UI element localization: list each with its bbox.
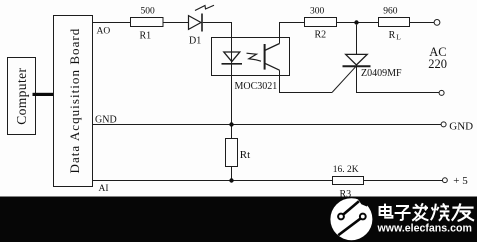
svg-text:+ 5: + 5 (453, 175, 468, 187)
AC terminal top (434, 20, 440, 26)
resistor R2 (305, 7, 337, 41)
computer box (8, 58, 36, 135)
LED inside MOC3021 (222, 52, 243, 64)
svg-text:Computer: Computer (14, 68, 29, 125)
svg-text:220: 220 (428, 57, 447, 71)
svg-text:GND: GND (95, 115, 117, 126)
resistor RL (379, 6, 410, 41)
AC terminal bottom (439, 90, 444, 95)
data acquisition board box (54, 16, 93, 187)
bus connector bar (33, 93, 55, 96)
light arrows (247, 53, 262, 61)
svg-text:Data Acquisition Board: Data Acquisition Board (67, 28, 82, 174)
logo text dian (380, 204, 393, 218)
logo text fa (412, 203, 428, 221)
junction on GND wire (229, 122, 233, 126)
svg-text:www.elecfans.com: www.elecfans.com (377, 222, 472, 234)
wire phototriac top to R2 (280, 23, 305, 44)
triac Z0409MF (332, 25, 402, 93)
svg-text:MOC3021: MOC3021 (235, 81, 278, 92)
svg-text:D1: D1 (189, 36, 201, 47)
wire LED cathode down (231, 64, 233, 139)
svg-text:R2: R2 (315, 30, 327, 41)
wire AO to R1 (93, 22, 131, 24)
AC 220 label (428, 45, 447, 71)
svg-text:R1: R1 (140, 31, 152, 42)
logo text zi (395, 206, 411, 220)
wire triac to AC bottom terminal (357, 92, 440, 94)
resistor Rt (226, 139, 251, 167)
svg-text:500: 500 (141, 7, 156, 17)
AI wire left (93, 180, 333, 182)
logo circle (330, 197, 372, 241)
svg-text:R: R (389, 30, 396, 41)
diode D1 (189, 5, 215, 46)
junction on AI wire (229, 178, 233, 182)
svg-text:960: 960 (383, 6, 398, 16)
svg-text:L: L (396, 33, 401, 42)
junction node (354, 20, 358, 24)
svg-text:GND: GND (449, 121, 473, 133)
wire phototriac bottom to gate (280, 70, 333, 92)
wire Rt to AI (231, 167, 233, 181)
GND wire (93, 124, 442, 126)
svg-text:Z0409MF: Z0409MF (361, 68, 402, 79)
resistor R1 (131, 7, 164, 42)
+5 terminal (443, 178, 448, 183)
svg-text:300: 300 (310, 7, 325, 17)
resistor R3 (333, 165, 364, 200)
wire D1 to LED branch (203, 23, 232, 53)
AI wire right (364, 180, 443, 182)
logo text shao (431, 203, 450, 220)
optocoupler U1 MOC3021 box (212, 38, 290, 92)
logo bar (decorative footer) (0, 197, 477, 242)
svg-text:AO: AO (97, 26, 111, 36)
svg-text:AI: AI (99, 184, 109, 194)
svg-text:Rt: Rt (240, 149, 250, 161)
svg-text:16. 2K: 16. 2K (333, 165, 359, 175)
GND terminal (441, 122, 446, 127)
wire R1 to D1 (163, 22, 189, 24)
logo text you (452, 203, 474, 221)
phototriac inside MOC3021 (265, 44, 280, 71)
wire R2 to RL (337, 22, 434, 24)
